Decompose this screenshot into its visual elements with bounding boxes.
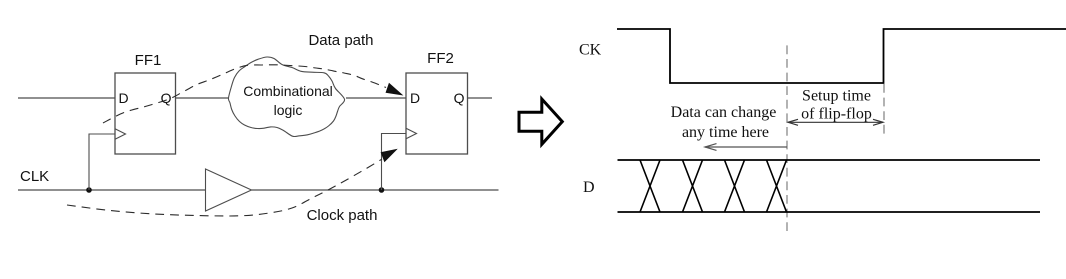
junction dot at FF1 clock tap — [86, 187, 92, 193]
flip-flop FF1 box — [115, 73, 176, 154]
junction dot at FF2 clock tap — [379, 187, 385, 193]
wire: CLK line left segment — [18, 189, 206, 191]
svg-text:any time here: any time here — [682, 124, 769, 141]
svg-text:FF2: FF2 — [427, 50, 454, 67]
data transition X1 — [640, 160, 660, 212]
svg-text:Setup time: Setup time — [802, 88, 871, 105]
svg-text:Clock path: Clock path — [307, 207, 378, 224]
svg-text:CK: CK — [579, 42, 602, 59]
dashed guide line at clock edge — [883, 84, 885, 136]
svg-text:Q: Q — [161, 90, 172, 106]
FF2 clock input triangle — [406, 128, 417, 138]
wire: cloud to FF2 D — [346, 97, 406, 99]
wire: FF2 Q output — [468, 97, 493, 99]
svg-text:Combinational: Combinational — [243, 83, 333, 99]
CK waveform — [617, 29, 1066, 83]
FF1 clock input triangle — [115, 129, 126, 139]
dashed guide line at setup-window start — [786, 45, 788, 231]
svg-text:Q: Q — [454, 90, 465, 106]
wire: FF1 D input — [18, 97, 115, 99]
svg-text:D: D — [583, 179, 595, 196]
data transition X3 — [725, 160, 745, 212]
clock path dashed curve — [67, 159, 382, 216]
data path arrowhead — [386, 84, 402, 95]
svg-text:FF1: FF1 — [135, 52, 162, 69]
wire: FF1 clock tap — [89, 134, 115, 190]
svg-text:Data path: Data path — [308, 32, 373, 49]
clock path arrowhead — [381, 150, 396, 162]
wire: FF2 clock tap — [382, 134, 407, 191]
data-change left arrow — [705, 144, 787, 151]
data transition X2 — [683, 160, 703, 212]
combinational logic cloud — [228, 57, 344, 137]
D waveform top line — [618, 159, 1041, 161]
big implication arrow — [519, 99, 562, 144]
svg-text:Data can change: Data can change — [671, 104, 777, 121]
svg-text:D: D — [119, 90, 129, 106]
D waveform bottom line — [618, 211, 1041, 213]
svg-text:D: D — [410, 90, 420, 106]
svg-text:logic: logic — [274, 102, 303, 118]
wire: FF1 Q to cloud — [176, 97, 230, 99]
flip-flop FF2 box — [406, 73, 468, 154]
wire: CLK line right segment — [252, 189, 499, 191]
setup time double-headed arrow — [788, 119, 883, 125]
buffer (clock driver) triangle — [206, 169, 252, 211]
svg-text:of flip-flop: of flip-flop — [801, 106, 872, 123]
svg-text:CLK: CLK — [20, 168, 49, 185]
data path dashed curve — [103, 65, 386, 123]
data transition X4 — [767, 160, 787, 212]
